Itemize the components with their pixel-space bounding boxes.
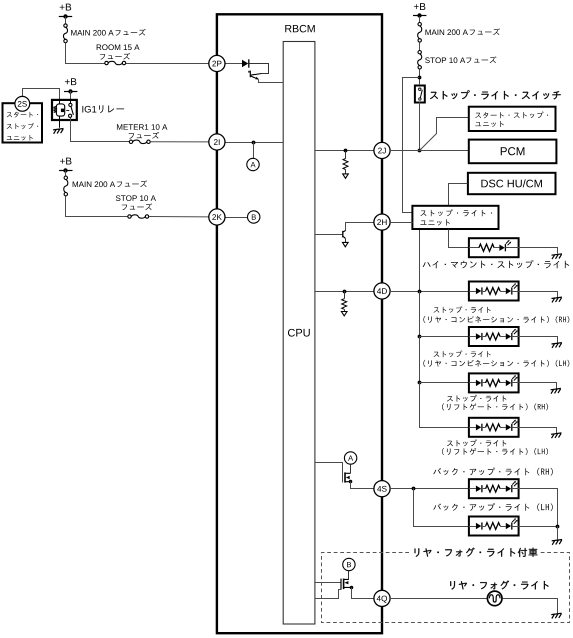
wire <box>65 17 67 24</box>
fuse METER1 10 A <box>129 140 132 143</box>
node A (source) <box>247 158 259 170</box>
wire <box>519 292 558 298</box>
wire stop light unit to high mount lamp <box>449 230 469 248</box>
transistor Q4 (MOSFET) <box>315 582 341 584</box>
resistor (2J pull) <box>345 151 347 159</box>
label STOP 10 A fuse <box>116 195 156 201</box>
wire 2K row <box>225 217 247 219</box>
label stop light <box>447 395 506 402</box>
junction <box>252 141 256 145</box>
label high mount stop light <box>423 260 569 268</box>
fuse STOP 10 A (left) <box>128 215 131 218</box>
wire <box>503 599 558 614</box>
diode D1 <box>242 60 248 67</box>
ground stop light RH <box>552 297 562 302</box>
junction <box>343 290 347 294</box>
fuse MAIN 200 A (left) <box>64 24 67 27</box>
wire <box>419 69 421 84</box>
+B supply (lower left) <box>60 158 71 165</box>
lamp back-up light LH <box>469 517 519 536</box>
wire switch to 2J node <box>419 102 421 151</box>
label rear combination RH <box>423 316 569 323</box>
wire <box>519 526 558 528</box>
connector 2J <box>374 142 390 158</box>
resistor (4D pull) <box>344 291 346 299</box>
node B (use) <box>343 558 355 570</box>
label ROOM 15 A fuse <box>97 44 140 50</box>
label start-stop unit line1 <box>7 112 38 118</box>
label back-up light RH <box>433 468 552 476</box>
stop light unit box <box>412 206 498 229</box>
CPU box <box>283 42 315 625</box>
ground back-up lights <box>552 540 562 545</box>
ground relay coil <box>53 129 63 134</box>
junction <box>418 149 422 153</box>
CPU label <box>288 329 310 337</box>
label start-stop unit (right) line1 <box>475 112 548 119</box>
wire <box>259 80 284 83</box>
label stop light <box>447 439 506 446</box>
wire <box>419 337 421 383</box>
label MAIN 200 A fuse <box>71 30 113 36</box>
wire <box>419 17 421 23</box>
junction <box>418 290 422 294</box>
label MAIN 200 A fuse <box>425 29 467 35</box>
wire <box>519 428 557 434</box>
relay IG1 label <box>82 106 96 113</box>
lamp stop light rear combination LH <box>469 327 519 346</box>
wire 4D to lamps <box>390 291 469 293</box>
wire 2H to stop light unit <box>390 222 413 224</box>
connector 4S <box>374 481 390 497</box>
option dashed box (with rear fog light) <box>322 553 570 623</box>
lamp stop light liftgate RH <box>469 373 519 392</box>
label stop light <box>434 351 491 358</box>
connector 2P <box>209 55 225 71</box>
transistor Q2 <box>315 234 343 236</box>
wire CPU to 4D <box>315 291 374 293</box>
label back-up light LH <box>433 503 552 511</box>
junction <box>418 76 422 80</box>
junction <box>418 381 422 385</box>
connector 2S <box>15 96 30 111</box>
wire <box>519 248 558 254</box>
connector 2I <box>209 134 225 150</box>
start-stop unit box (left) <box>3 103 43 142</box>
wire <box>250 64 269 74</box>
wire <box>70 91 72 100</box>
node B (source) <box>248 211 260 223</box>
+B supply (relay) <box>65 78 76 85</box>
ground high mount stop light <box>552 254 562 259</box>
junction <box>344 149 348 153</box>
lamp back-up light RH <box>469 479 519 498</box>
RBCM label <box>285 25 314 33</box>
+B supply (top left) <box>60 4 71 11</box>
lamp stop light rear combination RH <box>469 282 519 301</box>
junction <box>556 525 560 529</box>
label start-stop unit (right) line2 <box>475 121 503 127</box>
connector 2H <box>374 214 390 230</box>
label with rear fog light <box>415 548 538 557</box>
relay coil <box>54 106 56 112</box>
ground rear fog light <box>551 613 561 618</box>
wire <box>519 489 558 527</box>
wire to start-stop unit <box>420 118 469 151</box>
fuse ROOM 15 A <box>105 61 108 64</box>
wire relay to METER1 fuse <box>71 118 130 142</box>
wire to stop light unit <box>403 78 420 213</box>
PCM box <box>469 140 557 164</box>
stop light switch <box>415 86 425 103</box>
wire <box>419 291 421 337</box>
relay IG1 box <box>52 100 77 120</box>
wire <box>65 170 67 176</box>
label stop light unit line1 <box>420 209 492 216</box>
wire 4Q to bulb <box>390 598 487 600</box>
label MAIN 200 A fuse <box>73 181 115 187</box>
wire <box>150 141 208 143</box>
connector 2K <box>209 209 225 225</box>
ground liftgate LH <box>551 433 561 438</box>
node A (use) <box>344 452 356 464</box>
wire 2I row <box>225 142 283 144</box>
ground stop light LH <box>552 343 562 348</box>
wire 2J to PCM <box>390 150 469 152</box>
wire <box>126 63 209 65</box>
ground liftgate RH <box>551 388 561 393</box>
bulb rear fog light <box>487 591 502 606</box>
RBCM module box <box>217 14 382 633</box>
wire 4S to lamps <box>390 488 469 490</box>
wire <box>519 337 558 343</box>
wire <box>149 216 209 218</box>
label stop light unit line2 <box>420 219 449 225</box>
fuse MAIN 200 A (lower left) <box>64 176 67 179</box>
label stop light <box>434 306 491 313</box>
wire <box>66 197 128 217</box>
transistor Q1 <box>249 71 250 78</box>
lamp high mount stop light <box>469 238 519 257</box>
label start-stop unit line3 <box>7 135 33 141</box>
wire <box>519 383 557 389</box>
connector 4D <box>374 283 390 299</box>
relay link <box>66 110 69 112</box>
fuse STOP 10 A (right) <box>418 51 421 54</box>
label stop light switch <box>430 90 561 99</box>
wire <box>419 42 421 50</box>
label start-stop unit line2 <box>7 123 38 129</box>
wire <box>66 43 105 64</box>
label METER1 10 A fuse <box>117 124 167 130</box>
start-stop unit box (right) <box>469 107 556 131</box>
wire <box>414 489 469 527</box>
wire <box>420 383 469 428</box>
label STOP 10 A fuse <box>425 57 465 63</box>
DSC HU/CM box <box>468 173 556 194</box>
junction <box>412 487 416 491</box>
transistor Q3 (MOSFET) <box>315 463 343 483</box>
+B supply (top right) <box>414 3 425 10</box>
wire stop light unit to 4D node <box>419 230 421 291</box>
lamp stop light liftgate LH <box>469 418 519 437</box>
label rear combination LH <box>423 360 569 367</box>
label liftgate LH <box>442 448 548 455</box>
wire 2P to diode <box>225 63 242 65</box>
wire 2S to relay coil <box>23 89 60 101</box>
relay contact <box>69 103 72 106</box>
junction <box>418 335 422 339</box>
wire CPU to 2J <box>315 150 374 152</box>
label rear fog light <box>450 580 548 589</box>
wire DSC to stop light unit <box>449 184 468 206</box>
fuse MAIN 200 A (right) <box>418 23 421 26</box>
label liftgate RH <box>442 403 548 410</box>
connector 4Q <box>374 590 390 606</box>
